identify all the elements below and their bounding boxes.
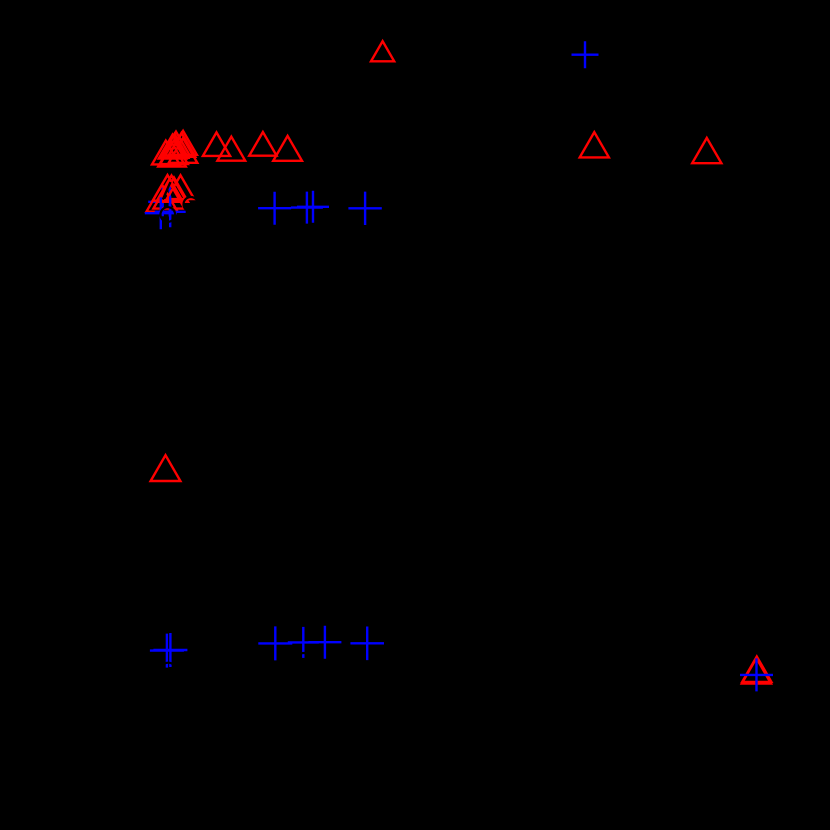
red triangle FE cluster-mid fill: [160, 178, 188, 202]
red triangle T7 right: [580, 132, 609, 157]
blue plus P2c cluster-mid: [145, 197, 177, 229]
B1 black circle cluster-mid: [161, 207, 176, 222]
black triangle-edge cut cluster-mid: [163, 182, 171, 199]
red triangle C1b cluster-top: [161, 134, 189, 158]
blue plus P3 mid row: [258, 192, 291, 225]
blue plus P13 bottom-right: [740, 658, 773, 691]
blue plus P10 bottom row: [288, 627, 319, 658]
red triangle C2b cluster-top: [168, 133, 196, 157]
B2 black circle cluster-mid: [184, 197, 199, 212]
B4 black circle bottom cluster: [161, 663, 176, 678]
red triangle T4 row: [217, 137, 245, 161]
red triangle T11b bottom-right overlap: [742, 657, 771, 682]
red triangle T6 row: [273, 136, 302, 161]
red triangle FB cluster-mid: [167, 175, 195, 199]
red triangle C5 cluster-top: [169, 138, 198, 163]
blue plus P6 mid row: [348, 192, 381, 225]
blue plus P5 mid row: [297, 191, 329, 223]
blue plus P1 top: [572, 41, 599, 68]
blue plus P8 bottom cluster: [153, 633, 187, 667]
red triangle C1 cluster-top: [162, 132, 190, 156]
red triangle T3 row: [203, 132, 230, 156]
red triangle FC cluster-mid: [153, 182, 184, 209]
B5 black circle bottom row: [296, 653, 311, 668]
blue plus P12 bottom row: [350, 627, 384, 661]
blue plus Pa cluster-mid under: [148, 187, 177, 216]
blue plus P11 bottom row: [308, 626, 341, 659]
blue plus P9 bottom row: [258, 626, 292, 660]
red triangle FA cluster-mid: [153, 175, 183, 201]
red triangle C2 cluster-top: [169, 131, 197, 155]
red triangle C8 cluster-top: [160, 140, 188, 164]
red triangle T5 row: [249, 132, 276, 156]
red triangle C3 cluster-top: [152, 141, 180, 165]
red triangle T1 lone top-center: [371, 41, 394, 61]
blue plus P4 mid row: [291, 192, 323, 224]
red triangle T8 right: [692, 138, 721, 163]
red triangle FD cluster-mid: [146, 185, 177, 212]
red triangle FF cluster-mid fill: [157, 176, 186, 201]
blue plus P2b cluster-mid: [155, 196, 186, 227]
blue plus Pd cluster-mid under: [154, 186, 185, 217]
red triangle T10 lone mid-left: [151, 455, 181, 481]
blue plus P7 bottom cluster: [150, 634, 184, 668]
red triangle C4 cluster-top: [158, 143, 186, 167]
red triangle C6 cluster-top: [159, 135, 187, 159]
red triangle T11 bottom-right: [742, 658, 771, 683]
